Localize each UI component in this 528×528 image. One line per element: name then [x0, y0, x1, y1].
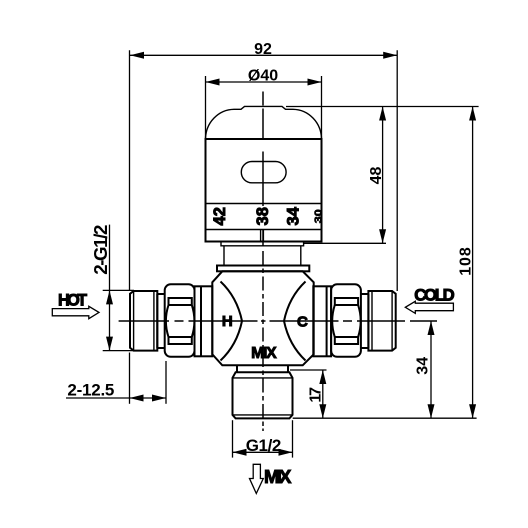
MIX flow arrow	[250, 464, 264, 493]
svg-text:COLD: COLD	[414, 285, 455, 304]
valve cap cylinder	[206, 139, 322, 242]
svg-text:38: 38	[254, 207, 272, 225]
right inlet male thread	[368, 291, 395, 351]
right sleeve	[313, 286, 331, 356]
svg-text:MIX: MIX	[264, 466, 292, 487]
centerline vertical	[262, 92, 264, 432]
right thread root lines	[372, 291, 392, 351]
svg-text:HOT: HOT	[58, 291, 87, 309]
right inlet neck	[361, 294, 369, 348]
svg-text:G1/2: G1/2	[246, 436, 282, 455]
valve cap dome	[206, 106, 322, 139]
svg-text:92: 92	[254, 41, 272, 58]
svg-text:30: 30	[313, 209, 324, 223]
label MIX on body	[251, 345, 277, 362]
centerline horizontal	[119, 320, 437, 322]
scale number 38	[254, 207, 272, 225]
dimension G1/2	[233, 420, 293, 457]
scale number 34	[284, 206, 302, 225]
label COLD	[414, 285, 455, 304]
dimension 108	[293, 107, 477, 419]
label H	[222, 313, 233, 330]
outlet male thread	[233, 372, 293, 418]
dimension Ø40	[206, 68, 322, 140]
left sleeve	[195, 286, 213, 356]
body waist arc top-right	[284, 282, 306, 322]
svg-text:17: 17	[308, 387, 325, 403]
svg-text:108: 108	[458, 247, 475, 276]
svg-text:H: H	[222, 313, 233, 330]
COLD flow arrow	[405, 301, 453, 313]
dimension 48	[304, 107, 386, 244]
label HOT	[58, 291, 87, 309]
left inlet male thread	[130, 291, 157, 351]
scale number 30	[313, 209, 324, 223]
dimension 92	[130, 41, 398, 291]
svg-text:2-G1/2: 2-G1/2	[90, 225, 111, 275]
HOT flow arrow	[52, 306, 99, 318]
dimension 34	[415, 321, 435, 418]
scale number 42	[211, 207, 229, 225]
cap stem marks	[261, 230, 264, 242]
left thread root lines	[134, 291, 154, 351]
dimension 2-G1/2	[90, 225, 134, 351]
bonnet flange lower	[217, 266, 309, 272]
bonnet neck	[224, 246, 301, 266]
right union nut	[331, 284, 361, 357]
cap scale band lines	[206, 204, 322, 230]
bonnet flange upper	[221, 241, 304, 245]
outlet thread root lines	[233, 378, 293, 415]
svg-text:Ø40: Ø40	[248, 68, 278, 85]
cap oval slot	[241, 162, 286, 183]
valve body	[212, 271, 313, 365]
left inlet neck	[157, 294, 164, 348]
body waist arc top-left	[221, 282, 243, 322]
dimension 17	[290, 370, 327, 418]
top reference line	[286, 106, 479, 108]
label MIX bottom	[264, 466, 292, 487]
outlet stub	[237, 365, 288, 372]
body waist arc bottom-left	[221, 321, 243, 361]
left union nut	[165, 284, 195, 357]
svg-text:2-12.5: 2-12.5	[67, 381, 114, 400]
svg-text:48: 48	[368, 167, 385, 185]
dimension 2-12.5	[66, 353, 166, 404]
svg-text:34: 34	[284, 206, 302, 225]
svg-text:MIX: MIX	[251, 345, 277, 362]
svg-text:42: 42	[211, 207, 229, 225]
svg-text:34: 34	[415, 357, 432, 375]
svg-text:C: C	[297, 313, 308, 330]
label C	[297, 313, 308, 330]
body waist arc bottom-right	[284, 321, 306, 361]
